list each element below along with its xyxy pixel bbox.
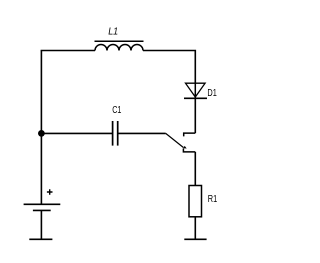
wire capacitor to transistor base [118,132,166,134]
diode D1 [184,83,207,98]
inductor L1 [95,41,144,50]
ground right [184,238,206,240]
svg-text:R1: R1 [208,194,218,205]
node dot [38,130,45,137]
wire node to capacitor [41,132,112,134]
svg-text:L1: L1 [108,27,118,38]
wire top-left horizontal [41,50,95,52]
wire top-right horizontal and down to diode [143,51,195,84]
wire transistor to resistor [194,152,196,186]
wire resistor to ground [194,217,196,239]
capacitor C1 [113,121,118,146]
wire battery to ground [40,210,42,239]
battery B1 [24,189,61,210]
svg-text:D1: D1 [207,88,217,99]
ground left [29,238,52,240]
resistor R1 [189,186,202,217]
transistor Q1 [166,133,196,152]
wire diode to transistor [194,98,196,133]
wire left vertical [40,51,42,205]
svg-text:C1: C1 [112,105,121,116]
